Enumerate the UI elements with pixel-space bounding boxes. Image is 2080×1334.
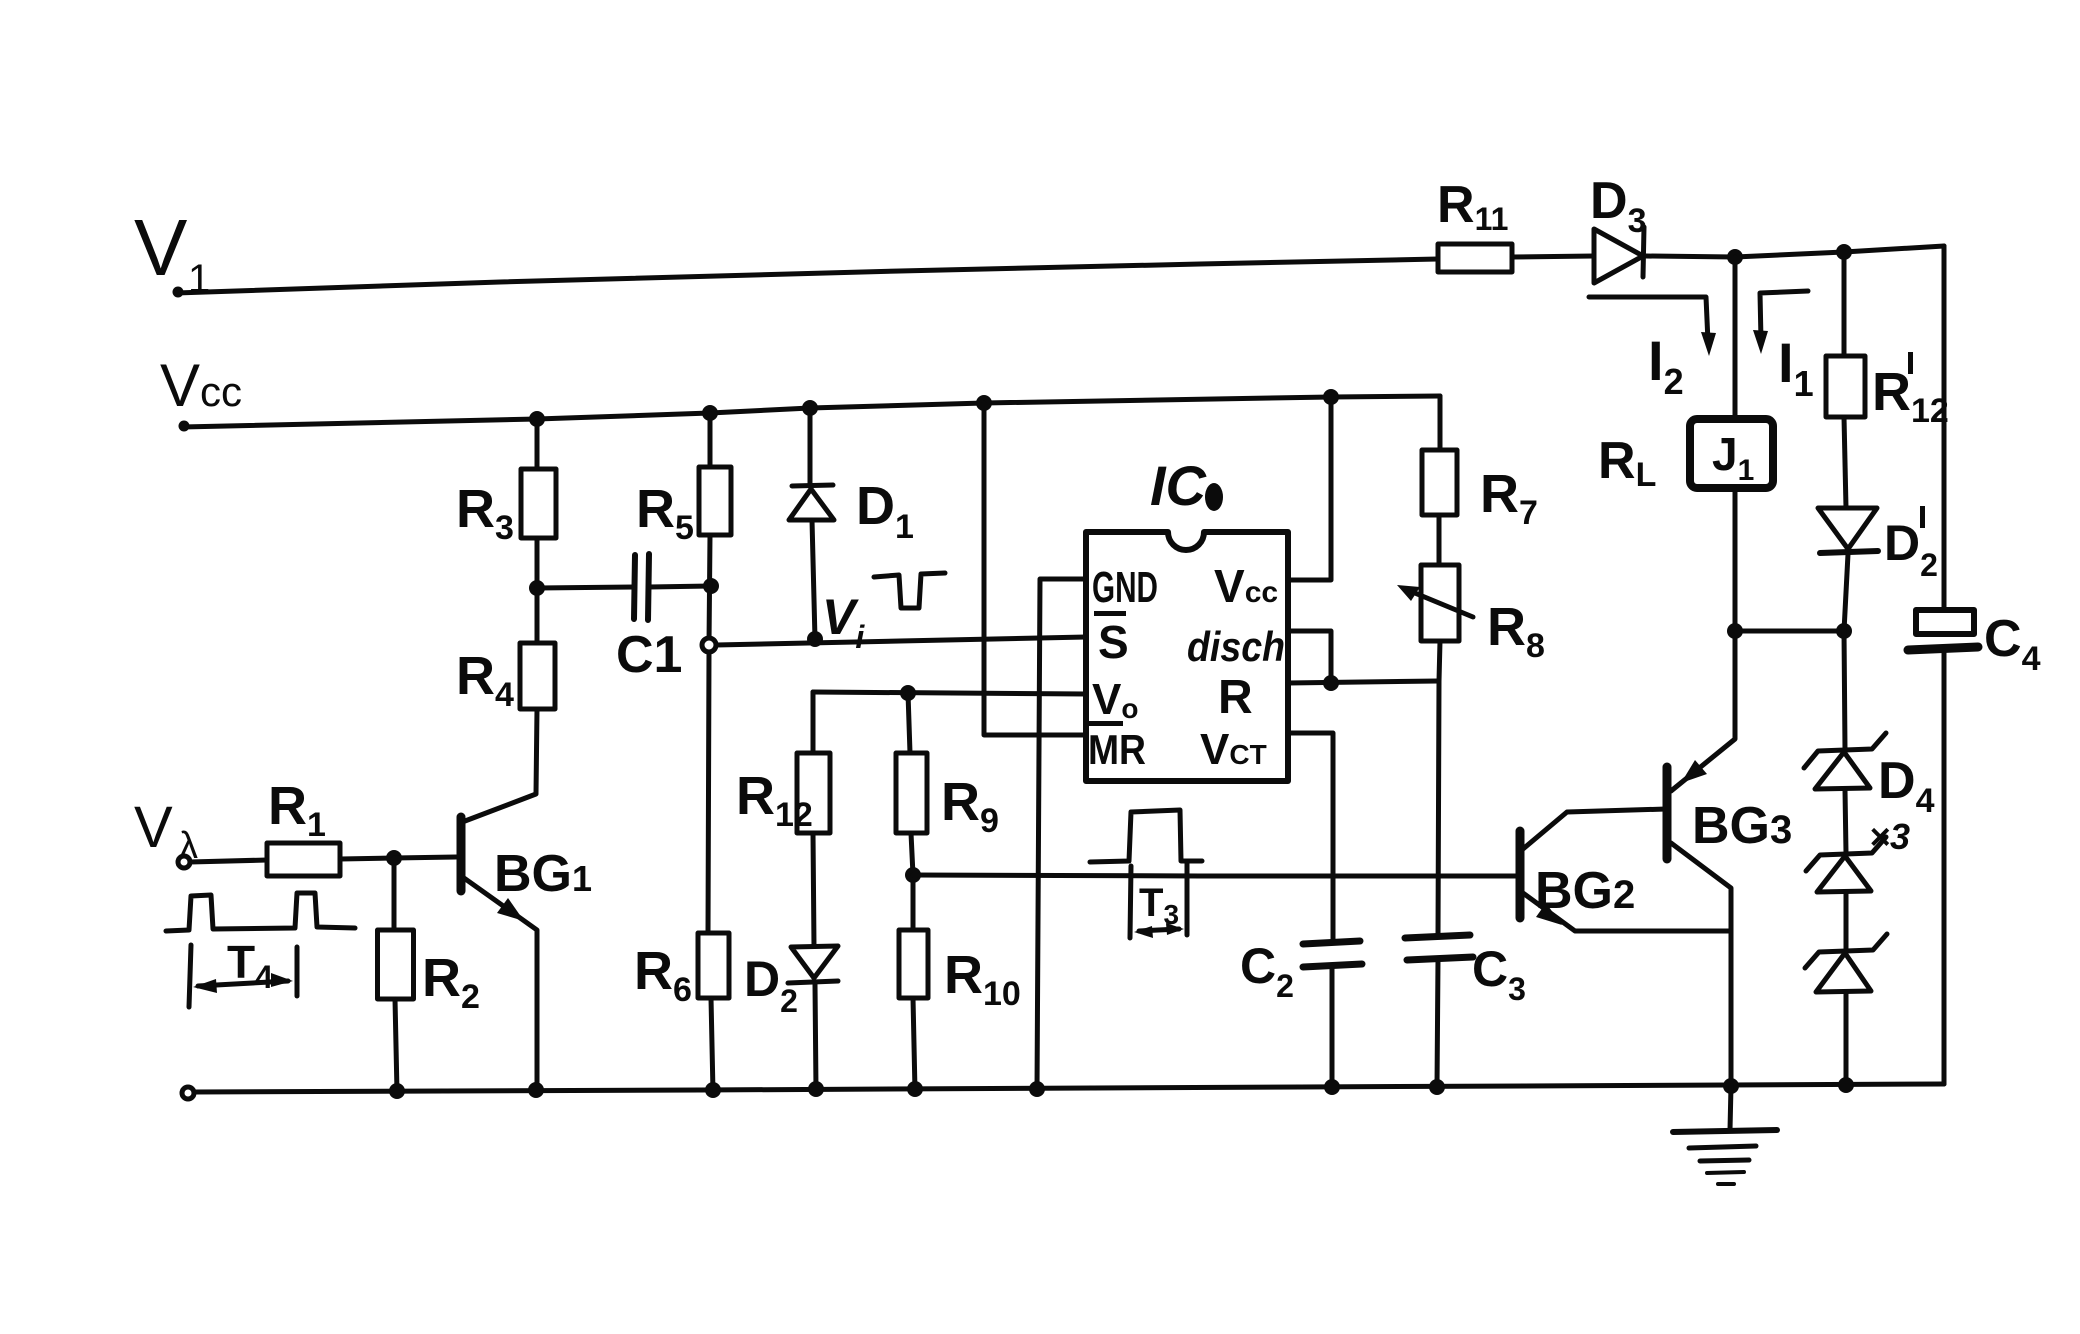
wire input to R1 xyxy=(190,860,267,862)
svg-text:C4: C4 xyxy=(1984,610,2041,678)
pin label R (IC) xyxy=(1218,671,1253,724)
wire R12 to D2 xyxy=(813,833,814,947)
label R1 xyxy=(268,776,326,844)
diode D2' xyxy=(1818,508,1878,631)
wire R10 to ground rail xyxy=(913,998,915,1091)
resistor R6 xyxy=(698,933,729,998)
svg-text:D2: D2 xyxy=(1884,515,1938,583)
label R7 xyxy=(1480,464,1538,532)
svg-text:R1: R1 xyxy=(268,776,326,844)
wire D3 to top right corner xyxy=(1646,246,1944,257)
label I2 xyxy=(1648,329,1684,402)
pin label V0 xyxy=(1092,675,1138,724)
resistor R2 xyxy=(378,930,414,999)
node ground rail left terminal xyxy=(182,1087,194,1099)
label C4 xyxy=(1984,610,2041,678)
wire R pin to timing node xyxy=(1288,681,1438,683)
label R2 xyxy=(422,948,480,1016)
svg-text:R10: R10 xyxy=(944,945,1021,1013)
wire junction to R10 xyxy=(911,875,916,930)
svg-text:C2: C2 xyxy=(1240,938,1294,1004)
junction top line / R12' xyxy=(1836,244,1852,260)
label IC1 xyxy=(1150,454,1223,517)
svg-text:D2: D2 xyxy=(744,951,798,1019)
capacitor C3 xyxy=(1405,935,1473,1087)
wire D4a to D4b xyxy=(1845,790,1846,853)
svg-text:D1: D1 xyxy=(856,476,914,546)
svg-text:R5: R5 xyxy=(636,479,694,547)
label D3 xyxy=(1590,172,1646,240)
junction base node xyxy=(386,850,402,866)
svg-text:D3: D3 xyxy=(1590,172,1646,240)
svg-text:R3: R3 xyxy=(456,479,514,547)
label R12 xyxy=(736,766,813,834)
pin label GND xyxy=(1092,563,1158,612)
transistor BG2 collector to BG3 base xyxy=(1523,809,1666,849)
wire R1 to base node xyxy=(340,858,394,859)
wire R11 to D3 xyxy=(1512,256,1594,257)
label T3 xyxy=(1139,881,1179,930)
op-amp/timer IC1 box xyxy=(1086,532,1288,781)
wire R9 branch xyxy=(908,693,910,753)
svg-text:R8: R8 xyxy=(1487,597,1545,665)
svg-text:T4: T4 xyxy=(227,936,273,995)
wire R12' to D2' xyxy=(1844,417,1846,508)
svg-text:I2: I2 xyxy=(1648,329,1684,402)
label R5 xyxy=(636,479,694,547)
waveform negative pulse at Vk xyxy=(874,573,945,608)
svg-text:I1: I1 xyxy=(1778,331,1814,404)
waveform T4 input pulses xyxy=(166,893,355,931)
label R3 xyxy=(456,479,514,547)
wire Vcc rail xyxy=(179,396,1441,432)
node Vin input terminal xyxy=(178,856,190,868)
wire R7 to R8 xyxy=(1437,515,1442,565)
transistor BG3 collector arm xyxy=(1671,843,1731,1086)
wire GND pin down to ground rail xyxy=(1037,579,1086,1090)
junction Vcc/IC Vcc pin xyxy=(1323,389,1339,405)
wire top line down to R12' xyxy=(1842,252,1847,356)
label BG3 xyxy=(1692,797,1792,855)
svg-text:R4: R4 xyxy=(456,646,514,714)
junction rail/C3 xyxy=(1429,1079,1445,1095)
T4 left tick xyxy=(189,945,191,1007)
junction R3/R4/C1 xyxy=(529,580,545,596)
wire base node to R2 xyxy=(392,858,397,930)
ground symbol xyxy=(1673,1086,1777,1184)
label R4 xyxy=(456,646,514,714)
junction rail/C2 xyxy=(1324,1079,1340,1095)
label R12' xyxy=(1872,352,1949,430)
junction rail/R10 xyxy=(907,1081,923,1097)
wire base node to BG1 xyxy=(394,857,456,858)
wire VCT pin down to C2 xyxy=(1288,733,1333,941)
wire R6 to ground rail xyxy=(711,998,713,1092)
T4 dimension arrows xyxy=(193,973,293,993)
label C3 xyxy=(1472,941,1526,1007)
wire timing node down to C3 xyxy=(1438,681,1439,936)
diode D2 xyxy=(788,946,838,1090)
label D1 xyxy=(856,476,914,546)
svg-text:R11: R11 xyxy=(1437,176,1508,237)
transistor BG1 bar xyxy=(457,817,466,891)
wire D4c to ground rail xyxy=(1844,993,1849,1085)
wire MR tie to Vcc rail xyxy=(984,403,1086,735)
svg-text:R7: R7 xyxy=(1480,464,1538,532)
wire Vk line to IC S pin xyxy=(716,637,1086,645)
junction rail/D2 xyxy=(808,1081,824,1097)
pin label Vcc (IC) xyxy=(1214,560,1278,612)
svg-text:RL: RL xyxy=(1598,432,1656,494)
svg-text:BG2: BG2 xyxy=(1535,862,1635,920)
junction rail/GND wire xyxy=(1029,1081,1045,1097)
resistor R11 xyxy=(1438,244,1512,272)
junction C1/R5 xyxy=(703,578,719,594)
zener diode D4c xyxy=(1805,934,1887,992)
transistor BG3 bar xyxy=(1663,767,1672,859)
label R9 xyxy=(941,772,999,840)
capacitor C1 xyxy=(537,554,711,620)
junction rail/BG1 emitter xyxy=(528,1082,544,1098)
resistor R3 xyxy=(521,419,556,588)
label x3 xyxy=(1869,816,1910,857)
wire R9 to base junction xyxy=(911,833,913,875)
label BG2 xyxy=(1535,862,1635,920)
T4 right tick xyxy=(295,947,300,996)
zener diode D4b xyxy=(1806,837,1886,892)
svg-text:S: S xyxy=(1098,616,1129,668)
wire disch pin xyxy=(1288,631,1331,683)
transistor BG1 collector xyxy=(465,709,537,821)
svg-text:disch: disch xyxy=(1187,623,1285,670)
svg-text:Vcc: Vcc xyxy=(160,352,242,419)
junction rail/BG3 xyxy=(1723,1078,1739,1094)
wire top right edge down to C4 xyxy=(1942,246,1947,610)
junction Vk/D1 xyxy=(807,631,823,647)
net label V_lambda xyxy=(134,795,198,867)
svg-text:GND: GND xyxy=(1092,563,1158,612)
wire zener node to D4 stack xyxy=(1844,631,1845,749)
pin label disch xyxy=(1187,623,1285,670)
resistor R1 xyxy=(267,843,340,876)
label BG1 xyxy=(494,845,592,903)
wire ground rail xyxy=(194,1084,1944,1092)
junction R9/R10/BG2 base line xyxy=(905,867,921,883)
label Vi xyxy=(822,589,865,655)
junction rail/R2 xyxy=(389,1083,405,1099)
svg-text:BG1: BG1 xyxy=(494,845,592,903)
wire J1 to BG3 node xyxy=(1733,488,1738,631)
wire link BG3 node to zener node xyxy=(1735,629,1844,634)
diode D1 xyxy=(789,408,834,639)
svg-text:C3: C3 xyxy=(1472,941,1526,1007)
transistor BG1 emitter xyxy=(464,878,537,1092)
junction rail/D4 xyxy=(1838,1077,1854,1093)
label R10 xyxy=(944,945,1021,1013)
label J1 xyxy=(1712,428,1754,487)
svg-text:BG3: BG3 xyxy=(1692,797,1792,855)
junction rail/R6 xyxy=(705,1082,721,1098)
junction Vcc/R3 xyxy=(529,411,545,427)
junction V0 line / R9 xyxy=(900,685,916,701)
wire Vcc rail corner down to R7 xyxy=(1438,396,1443,450)
capacitor C4 xyxy=(1908,610,1978,1084)
junction BG3 collector node xyxy=(1727,623,1743,639)
junction Vcc/MR branch xyxy=(976,395,992,411)
pin label MR with overbar xyxy=(1088,721,1146,773)
svg-text:V: V xyxy=(134,795,173,860)
junction zener node xyxy=(1836,623,1852,639)
label D2 xyxy=(744,951,798,1019)
pin label VCT xyxy=(1200,725,1267,774)
transistor BG3 emitter arm with arrow xyxy=(1671,631,1735,791)
junction top line / J1 xyxy=(1727,249,1743,265)
junction Vcc/D1 xyxy=(802,400,818,416)
resistor R4 xyxy=(520,588,555,709)
svg-text:R9: R9 xyxy=(941,772,999,840)
resistor R12' xyxy=(1826,356,1865,417)
label RL xyxy=(1598,432,1656,494)
potentiometer R8 xyxy=(1397,565,1473,641)
label D4 xyxy=(1878,752,1935,820)
svg-text:Vi: Vi xyxy=(822,589,865,655)
wire top line down to relay J1 xyxy=(1733,257,1738,419)
label R8 xyxy=(1487,597,1545,665)
T3 dimension arrows xyxy=(1134,923,1184,938)
svg-text:R6: R6 xyxy=(634,941,692,1009)
resistor R9 xyxy=(896,753,927,833)
wire V1 top rail xyxy=(173,259,1439,298)
wire D4b to D4c xyxy=(1844,892,1849,950)
pin label S with overbar xyxy=(1094,611,1129,668)
svg-text:T3: T3 xyxy=(1139,881,1179,930)
resistor R5 xyxy=(699,413,731,645)
wire IC V0 pin line xyxy=(813,692,1086,694)
svg-text:R: R xyxy=(1218,671,1253,724)
label R11 xyxy=(1437,176,1508,237)
node Vk junction ring xyxy=(702,638,716,652)
label C1 xyxy=(616,626,682,684)
zener diode D4a xyxy=(1804,733,1886,789)
wire V0 elbow down to R12 xyxy=(811,692,816,753)
net label Vcc xyxy=(160,352,242,419)
T3 right tick xyxy=(1185,862,1190,935)
current arrow I1 xyxy=(1753,291,1808,354)
T3 left tick xyxy=(1130,866,1131,938)
net label V1 xyxy=(134,203,210,301)
svg-text:D4: D4 xyxy=(1878,752,1935,820)
transistor BG2 emitter xyxy=(1523,893,1730,931)
label I1 xyxy=(1778,331,1814,404)
svg-text:MR: MR xyxy=(1088,726,1146,773)
junction Vcc/R5 xyxy=(702,405,718,421)
diode D3 xyxy=(1594,227,1644,283)
capacitor C2 xyxy=(1303,941,1362,1087)
transistor BG2 bar xyxy=(1516,831,1525,918)
current arrow I2 xyxy=(1589,297,1716,356)
waveform T3 positive pulse xyxy=(1090,810,1202,862)
svg-text:C1: C1 xyxy=(616,626,682,684)
wire R2 to ground rail xyxy=(395,999,397,1092)
wire R8 to timing node xyxy=(1439,641,1440,681)
resistor R7 xyxy=(1422,450,1457,515)
label D2' xyxy=(1884,506,1938,583)
junction disch/R/C2 node xyxy=(1323,675,1339,691)
relay J1 xyxy=(1690,419,1773,488)
wire R5 to R6 xyxy=(708,652,709,933)
svg-text:V: V xyxy=(134,203,188,292)
svg-text:R2: R2 xyxy=(422,948,480,1016)
resistor R12 xyxy=(797,753,830,833)
wire IC Vcc pin to rail xyxy=(1288,397,1331,580)
wire BG2 base line xyxy=(913,875,1517,876)
label C2 xyxy=(1240,938,1294,1004)
label T4 xyxy=(227,936,273,995)
resistor R10 xyxy=(899,930,928,998)
svg-text:IC: IC xyxy=(1150,454,1208,517)
label R6 xyxy=(634,941,692,1009)
